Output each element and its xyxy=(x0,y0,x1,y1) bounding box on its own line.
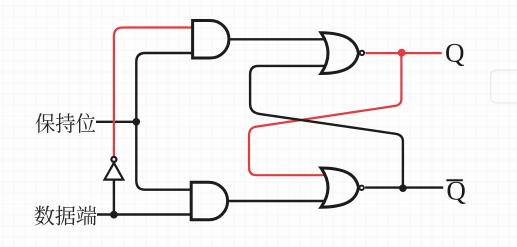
wire: Q-bar output xyxy=(365,186,443,188)
wire: hold-enable input line from 保持位 xyxy=(96,121,136,123)
nor-gate U5 (bottom) xyxy=(321,168,359,207)
label Q-bar (output, with overline) xyxy=(448,182,466,204)
node: enable junction xyxy=(133,118,141,126)
and-gate U4 (bottom) xyxy=(191,182,227,220)
wire: data line to inverter input xyxy=(113,180,115,215)
and-gate U1 (top) xyxy=(193,21,229,59)
U5 output bubble xyxy=(360,186,364,190)
wire: U1 output to NOR U2 top input xyxy=(229,38,326,40)
wire: Q output (red) xyxy=(365,52,441,54)
U2 output bubble xyxy=(360,51,364,55)
wire: Q feedback to NOR U5 top input (red) xyxy=(249,53,401,175)
label Q (output) xyxy=(446,44,464,66)
wire: U4 output to NOR U5 bottom input xyxy=(228,200,326,202)
node: Q junction (red) xyxy=(398,49,406,57)
node: Q-bar junction xyxy=(399,184,407,192)
nor-gate U2 (top) xyxy=(321,33,359,74)
wire: data input line from 数据端 to AND U4 bottom input xyxy=(97,213,192,215)
label 保持位 (hold bit) xyxy=(35,113,95,133)
label 数据端 (data terminal) xyxy=(34,206,96,226)
wire: enable riser up to AND U1 bottom input xyxy=(136,53,193,122)
wire: inverter output to AND U1 top input (red) xyxy=(114,28,193,157)
node: data junction xyxy=(110,211,118,219)
wire: enable riser down to AND U4 top input xyxy=(136,122,192,190)
wire: Q-bar feedback to NOR U2 bottom input xyxy=(250,66,403,188)
inverter U3 (triangle with bubble, pointing up) xyxy=(105,157,124,180)
